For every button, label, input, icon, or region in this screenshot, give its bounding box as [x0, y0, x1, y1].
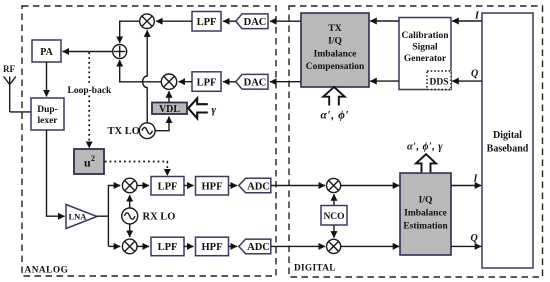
wire antenna to duplexer: [10, 111, 31, 113]
wire DAC to LPF (TX Q): [223, 81, 236, 83]
wire PA to duplexer: [46, 62, 48, 97]
wire CSG to TXIQ comp (Q): [370, 80, 399, 82]
svg-text:HPF: HPF: [202, 242, 223, 253]
wire HPF1 to ADC1: [229, 185, 238, 187]
svg-text:Dup-: Dup-: [37, 105, 58, 115]
wire IQE to baseband Q: [451, 245, 481, 247]
mixer M1 (TX I): [140, 14, 155, 29]
svg-text:LPF: LPF: [197, 77, 217, 88]
wire TXIQ comp to DAC I: [270, 20, 301, 22]
gamma hollow arrow into VDL: [188, 98, 208, 118]
RX mixer M3: [122, 178, 137, 193]
wire TXIQ comp to DAC Q: [270, 81, 301, 83]
svg-text:Calibration: Calibration: [402, 31, 450, 41]
wire duplexer to LNA: [47, 130, 65, 216]
svg-text:Imbalance: Imbalance: [404, 208, 447, 218]
svg-text:TX: TX: [328, 24, 341, 34]
NCO box: [321, 206, 347, 226]
wire split to RX mixer bottom: [108, 245, 120, 247]
svg-text:LPF: LPF: [158, 182, 178, 193]
svg-text:Digital: Digital: [493, 130, 522, 141]
svg-text:LPF: LPF: [158, 242, 178, 253]
digital mixer M5: [327, 178, 341, 192]
svg-text:α′, ϕ′, γ: α′, ϕ′, γ: [407, 142, 443, 153]
wire mixer M1 to adder: [120, 21, 140, 43]
mixer M2 (TX Q): [161, 74, 176, 89]
dotted wire u2 to RX LPF1: [105, 162, 168, 176]
wire HPF2 to ADC2: [229, 245, 238, 247]
ADC1 pentagon: [239, 178, 271, 193]
svg-text:2: 2: [91, 154, 95, 163]
svg-text:HPF: HPF: [202, 182, 223, 193]
adder S1: [113, 45, 127, 59]
wire TX LO to VDL: [155, 117, 169, 131]
wire LPF to mixer M1: [156, 20, 192, 22]
wire LNA to RX mixers split: [97, 186, 120, 247]
wire NCO to mixer M5: [333, 194, 335, 205]
TX LO oscillator: [139, 123, 155, 139]
VDL box: [152, 103, 187, 115]
svg-text:Signal: Signal: [412, 43, 438, 53]
ADC2 pentagon: [239, 239, 271, 254]
RX LPF1 box: [151, 177, 184, 196]
wire mixer M3 to LPF1: [137, 185, 149, 187]
wire baseband to DDS (Q): [452, 80, 482, 82]
svg-text:RF: RF: [3, 64, 15, 74]
I/Q Imbalance Estimation box: [400, 173, 451, 255]
LPF box (TX Q): [192, 72, 221, 92]
RX HPF2 box: [196, 237, 229, 256]
DDS dotted box: [427, 71, 451, 90]
svg-text:ANALOG: ANALOG: [25, 266, 69, 276]
svg-text:Q: Q: [471, 69, 478, 80]
wire VDL to mixer M2: [168, 91, 170, 102]
wire CSG to TXIQ comp (I): [370, 20, 399, 22]
svg-text:VDL: VDL: [159, 104, 180, 115]
RX HPF1 box: [196, 177, 229, 196]
Loop-back label: [66, 84, 113, 96]
DIGITAL dashed frame: [289, 6, 543, 277]
LNA triangle: [66, 205, 97, 229]
svg-text:Imbalance: Imbalance: [314, 49, 357, 59]
svg-text:Loop-back: Loop-back: [68, 86, 113, 96]
svg-text:α′, ϕ′: α′, ϕ′: [321, 109, 350, 121]
RX LO oscillator: [122, 208, 138, 224]
svg-text:ADC: ADC: [247, 181, 270, 192]
hollow arrow into TXIQ comp: [323, 87, 344, 106]
LPF box (TX I): [192, 12, 221, 32]
svg-text:RX LO: RX LO: [143, 212, 176, 223]
wire mixer M4 to LPF2: [137, 245, 149, 247]
wire ADC1 to digital mixer M5: [271, 185, 325, 187]
wire ADC2 to digital mixer M6: [271, 245, 325, 247]
u2 box: [74, 149, 104, 174]
svg-text:LPF: LPF: [197, 17, 217, 28]
svg-text:PA: PA: [40, 47, 53, 58]
wire DAC to LPF (TX I): [223, 20, 236, 22]
svg-text:I/Q: I/Q: [328, 37, 342, 47]
wire mixer M5 to IQ estimation: [341, 185, 400, 187]
svg-text:DAC: DAC: [244, 17, 267, 28]
wire IQE to baseband I: [451, 185, 481, 187]
RX LPF2 box: [151, 237, 184, 256]
RX mixer M4: [122, 239, 137, 254]
Digital Baseband box: [482, 13, 533, 268]
PA box: [32, 40, 61, 62]
wire adder to PA: [63, 51, 113, 53]
wire NCO to mixer M6: [333, 226, 335, 238]
wire LPF to mixer M2: [179, 81, 193, 83]
svg-text:lexer: lexer: [37, 116, 58, 126]
wire mixer M2 to adder: [120, 60, 162, 82]
svg-text:Estimation: Estimation: [403, 221, 448, 231]
DAC (I) pentagon: [236, 14, 268, 29]
DAC (Q) pentagon: [236, 74, 268, 89]
loop-back dotted line: [88, 52, 90, 148]
wire baseband to CSG (I): [452, 20, 482, 22]
wire mixer M6 to IQ estimation: [341, 245, 400, 247]
svg-text:LNA: LNA: [69, 212, 88, 222]
svg-text:DAC: DAC: [244, 78, 267, 89]
svg-text:Compensation: Compensation: [306, 62, 365, 72]
wire TX LO to mixer M1 (with hop): [143, 30, 148, 123]
svg-text:I/Q: I/Q: [419, 195, 433, 205]
wire RX LO to mixer M3: [129, 195, 131, 208]
svg-text:DDS: DDS: [429, 78, 448, 88]
digital mixer M6: [327, 239, 341, 253]
svg-text:u: u: [84, 156, 91, 170]
ANALOG dashed frame: [22, 6, 276, 276]
TX IQ Imbalance Compensation box: [301, 13, 369, 87]
wire LPF1 to HPF1: [184, 185, 194, 187]
svg-text:TX LO: TX LO: [108, 126, 140, 137]
duplexer box: [31, 98, 64, 130]
svg-text:Q: Q: [471, 233, 478, 244]
antenna: [4, 77, 16, 112]
wire LPF2 to HPF2: [184, 245, 194, 247]
hollow arrow out of IQ estimation: [416, 154, 436, 172]
svg-text:γ: γ: [212, 104, 217, 116]
wire RX LO to mixer M4: [129, 224, 131, 237]
Calibration Signal Generator box: [399, 18, 451, 90]
svg-text:ADC: ADC: [247, 242, 270, 253]
svg-text:NCO: NCO: [323, 212, 344, 222]
svg-text:Baseband: Baseband: [487, 144, 529, 155]
svg-text:Generator: Generator: [404, 54, 447, 64]
svg-text:DIGITAL: DIGITAL: [294, 264, 336, 274]
